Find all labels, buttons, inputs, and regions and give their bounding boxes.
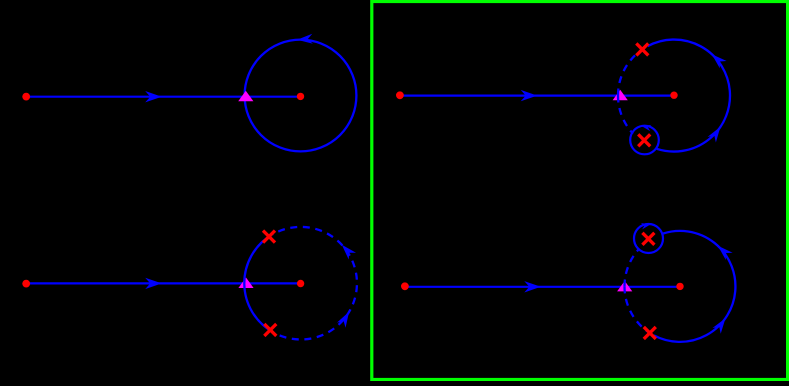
arrowhead on incoming path (panel 3) [145,278,162,289]
branch point triangle (panel 4) [617,281,632,292]
arrowhead on incoming path (panel 1) [145,91,162,102]
node: start point dot (panel 3) [22,280,30,288]
node: start point dot (panel 2) [396,91,404,99]
small arrowhead on indentation circle (panel 4) [641,221,652,229]
wire: path from -infinity (panel 3) [26,282,300,284]
arrowhead lower-right on solid arc (panel 2) [708,124,725,142]
green highlight frame [372,2,788,380]
pole X on dashed arc (panel 4) [644,327,656,339]
node: center singularity dot (panel 2) [670,92,677,99]
wire: path from -infinity (panel 4) [405,286,680,288]
contour circle C1 (panel 1) [245,40,357,152]
pole X on dashed arc (panel 2) [636,43,648,55]
arrowhead upper-right on solid arc (panel 4) [714,242,732,260]
pole X lower (panel 3) [264,324,276,336]
small indentation circle around pole (panel 4) [634,224,663,253]
solid deformed arc (panel 3) [244,235,273,333]
node: center singularity dot (panel 1) [297,93,304,100]
arrowhead lower-right on dashed arc (panel 3) [337,309,353,327]
solid main arc (panel 4) [654,231,736,342]
arrowhead on incoming path (panel 4) [524,281,541,292]
arrowhead on circle C1 [297,34,313,45]
pole X inside small circle (panel 2) [638,134,650,146]
node: center singularity dot (panel 4) [676,283,683,290]
wire: path from -infinity (panel 1) [26,96,300,98]
dashed arc below triangle through pole (panel 4) [625,286,654,335]
node: center singularity dot (panel 3) [297,280,304,287]
dashed original circle arc (panel 3) [273,227,357,340]
small indentation circle around pole (panel 2) [630,126,659,155]
arrowhead upper-right on solid arc (panel 2) [708,51,726,69]
solid main arc (panel 2) [648,40,730,152]
branch point triangle (panel 1) [238,91,253,102]
node: start point dot (panel 1) [22,93,30,101]
node: start point dot (panel 4) [401,282,409,290]
arrowhead upper-right on dashed arc (panel 3) [338,241,356,259]
wire: path from -infinity (panel 2) [400,94,674,96]
branch point triangle (panel 3) [238,278,253,289]
branch point triangle (panel 2) [613,90,628,101]
arrowhead on incoming path (panel 2) [521,90,538,101]
dashed arc above triangle (panel 4) [625,249,640,287]
pole X upper (panel 3) [263,231,275,243]
dashed arc below triangle (panel 2) [618,96,633,134]
pole X inside small circle (panel 4) [642,233,654,245]
small arrowhead on indentation circle (panel 2) [641,123,652,131]
arrowhead lower-right on solid arc (panel 4) [713,315,730,333]
dashed arc above triangle through pole (panel 2) [618,46,648,95]
